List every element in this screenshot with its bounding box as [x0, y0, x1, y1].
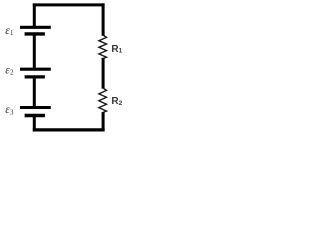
- wire right segment between R1 and R2: [102, 58, 105, 89]
- wire left segment between E2 and E3: [33, 77, 36, 108]
- battery cell E2 long plate: [20, 68, 51, 71]
- wire bottom: [33, 128, 105, 131]
- wire right segment bottom: [102, 112, 105, 132]
- wire left segment top: [33, 3, 36, 27]
- wire top: [33, 3, 105, 6]
- wire left segment bottom: [33, 116, 36, 132]
- resistor R2 zigzag: [99, 88, 107, 112]
- battery cell E2 short plate: [25, 75, 45, 78]
- battery cell E1 short plate: [25, 32, 45, 35]
- battery cell E1 long plate: [20, 26, 51, 29]
- wire right segment top: [102, 3, 105, 35]
- wire left segment between E1 and E2: [33, 34, 36, 69]
- battery cell E3 short plate: [25, 114, 45, 117]
- battery cell E3 long plate: [20, 106, 51, 109]
- resistor R1 zigzag: [99, 35, 107, 59]
